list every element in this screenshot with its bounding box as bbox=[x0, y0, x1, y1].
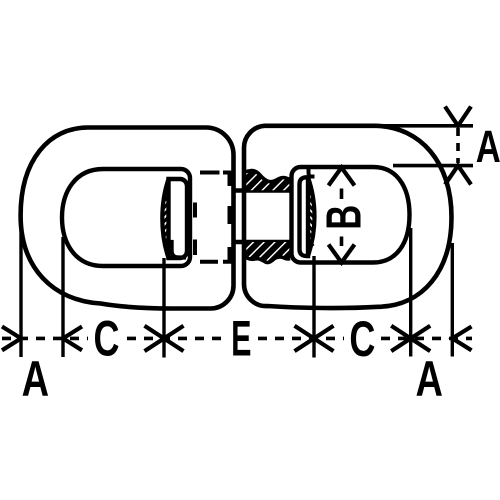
double arrow X at x=410.7 bbox=[391, 326, 430, 351]
shaft top line bbox=[233, 188, 290, 192]
dim A bottom arrow bbox=[445, 166, 471, 185]
svg-text:C: C bbox=[94, 312, 120, 367]
left eye outer contour bbox=[21, 128, 234, 309]
extension line x=21 bbox=[19, 221, 22, 357]
dimension B bottom arrow bbox=[329, 245, 355, 263]
extension line x=452.3 bbox=[451, 243, 454, 357]
right pin dome bbox=[308, 177, 315, 256]
right pin head rect bbox=[300, 177, 309, 256]
svg-text:B: B bbox=[316, 205, 370, 230]
svg-text:A: A bbox=[415, 352, 442, 407]
dim A top-right: extension line 1 bbox=[373, 124, 473, 128]
extension line x=314 bbox=[312, 256, 315, 358]
right eye inner hole bbox=[292, 167, 410, 263]
bottom dimension dashed line bbox=[2, 337, 472, 341]
left eye inner hole bbox=[62, 169, 190, 266]
arrow at x=63 pointing left bbox=[63, 327, 82, 351]
shaft bottom line bbox=[233, 240, 290, 244]
left pin head rect bbox=[169, 179, 188, 258]
right pin dome hatching bbox=[309, 191, 315, 246]
right pin top hook bbox=[309, 169, 315, 177]
double arrow X at x=164 bbox=[145, 326, 184, 351]
dim A top-right: extension line 2 bbox=[393, 164, 473, 168]
svg-text:A: A bbox=[476, 121, 500, 173]
barrel top hatched band bbox=[244, 171, 290, 191]
dimension B top arrow bbox=[329, 168, 355, 186]
dim A dashed stem bbox=[456, 128, 460, 163]
hidden socket dashed rectangle bbox=[195, 173, 230, 262]
arrow at x=21 pointing right bbox=[2, 327, 21, 351]
dimension B dashed line bbox=[340, 189, 344, 247]
svg-text:C: C bbox=[349, 312, 375, 367]
left pin bottom hook bbox=[166, 242, 186, 258]
double arrow X at x=314 bbox=[295, 326, 334, 351]
barrel bottom hatched band bbox=[244, 242, 290, 263]
svg-text:A: A bbox=[22, 352, 49, 407]
extension line x=63 bbox=[61, 237, 64, 357]
right eye outer contour bbox=[244, 126, 452, 308]
arrow at x=452.3 pointing left bbox=[452, 327, 471, 351]
svg-text:E: E bbox=[231, 311, 251, 367]
dim A top arrow bbox=[445, 107, 471, 126]
extension line x=164 bbox=[162, 258, 165, 358]
left pin dome bbox=[162, 179, 168, 258]
left pin dome hatching bbox=[163, 189, 169, 244]
extension line x=410.7 bbox=[409, 228, 412, 357]
